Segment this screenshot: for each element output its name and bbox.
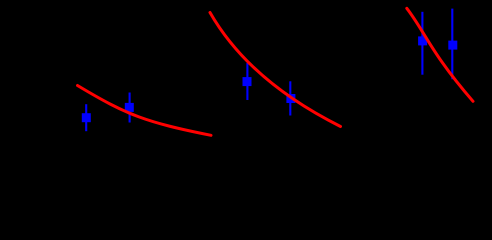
panel 3 data point 1 marker [418, 36, 427, 45]
panel 2 fit curve (red) [210, 13, 341, 127]
panel 3 data point 2 marker [448, 41, 457, 50]
panel 2 data point 2 marker [286, 94, 295, 103]
panel 1 fit curve (red) [78, 86, 212, 136]
panel 2 data point 1 marker [243, 77, 252, 86]
panel 3 data point 1 error bar [421, 12, 423, 75]
panel 1 data point 2 error bar [129, 93, 131, 123]
panel 2 data point 1 error bar [246, 63, 248, 100]
panel 3 data point 2 error bar [451, 9, 453, 80]
panel 1 data point 1 marker [82, 113, 91, 122]
panel 2 data point 2 error bar [289, 81, 291, 115]
panel 3 fit curve (red) [407, 8, 473, 101]
panel 1 data point 2 marker [125, 103, 134, 112]
panel 1 data point 1 error bar [85, 104, 87, 131]
